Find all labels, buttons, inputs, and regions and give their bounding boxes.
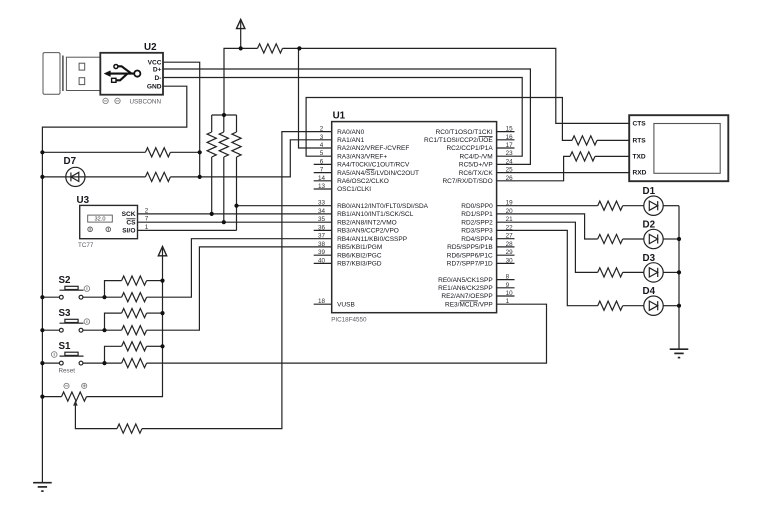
svg-text:S1: S1	[59, 341, 72, 352]
wire: resistor to LED D4	[623, 305, 644, 307]
wire: PIC pin2 RA0 to potentiometer wiper via resistor	[142, 132, 332, 429]
pot interactive symbols	[64, 383, 87, 388]
svg-text:32.0: 32.0	[95, 217, 106, 223]
wire: resistor to LED D2	[623, 238, 644, 240]
USB shell hole 1	[79, 63, 85, 70]
TC77 interactive symbols	[88, 227, 111, 232]
wire: S1 node upper branch to VCC rail	[105, 346, 122, 363]
PIC right pin function labels	[424, 129, 493, 309]
svg-text:RA0/AN0: RA0/AN0	[337, 129, 364, 136]
svg-text:4: 4	[320, 142, 324, 149]
wire: TC77 CS to PIC pin35 RB2	[138, 221, 332, 223]
svg-text:CTS: CTS	[633, 121, 647, 128]
potentiometer body	[62, 392, 87, 401]
wire: S3 node upper branch to VCC rail	[105, 313, 122, 330]
wire: TC77 SI/O riser to RB0 line	[138, 229, 237, 231]
svg-text:RB4/AN11/KBI0/CSSPP: RB4/AN11/KBI0/CSSPP	[337, 236, 407, 243]
svg-text:RB2/AN8/INT2/VMO: RB2/AN8/INT2/VMO	[337, 219, 397, 226]
svg-text:1: 1	[506, 298, 510, 305]
svg-text:U1: U1	[333, 110, 346, 121]
svg-text:D4: D4	[643, 286, 656, 297]
svg-text:RC4/D-/VM: RC4/D-/VM	[459, 153, 492, 160]
TC77 display	[88, 215, 113, 222]
diode D7	[66, 167, 85, 186]
resistor RP3 (pull-up SI/O)	[236, 115, 238, 132]
svg-text:SI/O: SI/O	[122, 228, 135, 235]
svg-text:VUSB: VUSB	[337, 301, 355, 308]
svg-text:24: 24	[506, 158, 514, 165]
PIC pin numbers right	[506, 126, 514, 306]
wire: PIC pin25 RC6/TX to RXD	[497, 172, 630, 174]
overline MCLR on RE3 label	[460, 300, 478, 302]
svg-text:1: 1	[145, 224, 149, 231]
serial module box	[629, 115, 728, 181]
wire: USB VCC to vertical rail x200	[163, 62, 200, 177]
resistor R-D3	[598, 268, 623, 277]
svg-text:Reset: Reset	[59, 368, 76, 375]
svg-text:3: 3	[320, 134, 324, 141]
svg-text:37: 37	[318, 233, 326, 240]
svg-text:D+: D+	[153, 66, 162, 73]
svg-text:35: 35	[318, 216, 326, 223]
svg-text:D3: D3	[643, 253, 656, 264]
wire: LED D4 to cathode rail	[663, 305, 679, 307]
USB plug shell	[66, 57, 100, 90]
wire: riser from VCC net down to PIC pin4 RA2	[299, 48, 332, 148]
USB shell hole 2	[79, 78, 85, 85]
svg-text:RE2/AN7/OESPP: RE2/AN7/OESPP	[441, 293, 492, 300]
TC77 U3 box	[80, 205, 138, 238]
PIC unconnected left pin stubs	[314, 164, 332, 304]
svg-text:7: 7	[145, 216, 149, 223]
resistor RP2 (pull-up CS)	[223, 115, 225, 132]
resistor R-D1	[598, 201, 623, 210]
wire: LED D1 to cathode rail	[663, 205, 679, 207]
svg-text:RA3/AN3/VREF+: RA3/AN3/VREF+	[337, 153, 387, 160]
wire: TC77 SCK to PIC pin34 RB1	[138, 213, 332, 215]
svg-text:RD5/SPP5/P1B: RD5/SPP5/P1B	[447, 244, 493, 251]
PIC pin numbers left	[318, 126, 326, 306]
resistor R-S2-pullup	[122, 276, 147, 285]
svg-text:RD4/SPP4: RD4/SPP4	[461, 236, 493, 243]
wire: resistor to LED D1	[623, 205, 644, 207]
svg-text:RB3/AN9/CCP2/VPO: RB3/AN9/CCP2/VPO	[337, 228, 399, 235]
svg-text:TXD: TXD	[633, 154, 646, 161]
svg-text:RA5/AN4/SS/LVDIN/C2OUT: RA5/AN4/SS/LVDIN/C2OUT	[337, 170, 419, 177]
svg-text:RB5/KBI1/PGM: RB5/KBI1/PGM	[337, 244, 382, 251]
PIC unconnected right pin stubs	[497, 132, 515, 296]
USB trident icon	[104, 65, 140, 83]
wiper arrowhead	[73, 400, 78, 405]
svg-text:RD1/SPP1: RD1/SPP1	[461, 211, 493, 218]
wire: PIC pin26 RC7/RX to TXD via resistor	[497, 156, 570, 180]
svg-text:USBCONN: USBCONN	[130, 99, 162, 106]
LED D3	[644, 263, 663, 282]
svg-text:RD3/SPP3: RD3/SPP3	[461, 228, 493, 235]
svg-text:23: 23	[506, 150, 514, 157]
svg-text:RC7/RX/DT/SDO: RC7/RX/DT/SDO	[442, 178, 492, 185]
resistor R-RTS	[572, 136, 597, 145]
wire: VCC top net with series resistor to CTS, riser to pull-up bus and pin4	[224, 48, 258, 115]
resistor R-S2-series	[122, 293, 147, 302]
svg-text:TC77: TC77	[78, 242, 94, 249]
resistor R-D7	[145, 172, 170, 181]
switch S1	[42, 352, 104, 365]
svg-text:U2: U2	[144, 42, 157, 53]
wire: S1 row resistor to PIC pin1 MCLR	[105, 362, 122, 364]
svg-text:RB6/KBI2/PGC: RB6/KBI2/PGC	[337, 252, 382, 259]
wire: rail to VCC-rail with resistor (y152)	[42, 151, 145, 153]
svg-text:RC2/CCP1/P1A: RC2/CCP1/P1A	[446, 145, 493, 152]
svg-text:RD6/SPP6/P1C: RD6/SPP6/P1C	[447, 252, 493, 259]
svg-text:34: 34	[318, 208, 326, 215]
svg-text:OSC1/CLKI: OSC1/CLKI	[337, 186, 371, 193]
USB interactive symbols	[103, 98, 120, 103]
svg-text:RD2/SPP2: RD2/SPP2	[461, 219, 493, 226]
resistor R-S3-pullup	[122, 309, 147, 318]
wire: USB D- to PIC pin23 RC4	[163, 78, 522, 157]
svg-text:RE3/MCLR/VPP: RE3/MCLR/VPP	[445, 301, 493, 308]
wire: USB GND wrap-around + left ground rail	[42, 86, 186, 483]
switch S3	[42, 319, 104, 332]
wire: PIC RD3 to D4 resistor	[497, 230, 598, 305]
resistor R-S3-series	[122, 326, 147, 335]
svg-text:U3: U3	[77, 195, 90, 206]
wire: PIC RD1 to D2 resistor	[497, 214, 598, 239]
svg-text:PIC18F4550: PIC18F4550	[331, 317, 367, 324]
resistor R-pullup (rail-VCC y152)	[145, 148, 170, 157]
wire: RB0 line to PIC pin33	[237, 205, 332, 207]
ground (left rail)	[33, 483, 52, 491]
switch S2	[42, 286, 104, 299]
power arrow VCC top	[237, 19, 245, 48]
resistor R-S1-series	[122, 359, 147, 368]
svg-text:RA4/T0CKI/C1OUT/RCV: RA4/T0CKI/C1OUT/RCV	[337, 162, 410, 169]
wire: RA3 pin5 to RTS via resistor	[306, 98, 572, 157]
USB plug neck	[62, 56, 64, 92]
wire: S2 node upper branch to VCC rail	[105, 281, 122, 298]
wire: S2 row resistor to PIC pin37 RB4	[105, 296, 122, 298]
svg-text:RE1/AN6/CK2SPP: RE1/AN6/CK2SPP	[438, 285, 493, 292]
resistor R-wiper	[117, 424, 142, 433]
svg-text:D-: D-	[155, 75, 162, 82]
svg-text:D7: D7	[64, 156, 77, 167]
resistor R-D2	[598, 234, 623, 243]
svg-text:RB1/AN10/INT1/SCK/SCL: RB1/AN10/INT1/SCK/SCL	[337, 211, 414, 218]
svg-text:RD0/SPP0: RD0/SPP0	[461, 203, 493, 210]
wire: LED D2 to cathode rail	[663, 238, 679, 240]
PIC18F4550 U1 box	[332, 122, 497, 313]
serial module inner screen	[654, 124, 720, 174]
svg-text:38: 38	[318, 241, 326, 248]
overline UOE on RC1 label	[479, 136, 493, 138]
svg-text:S3: S3	[59, 308, 72, 319]
wire: PIC RD2 to D3 resistor	[497, 222, 598, 272]
svg-text:RB7/KBI3/PGD: RB7/KBI3/PGD	[337, 261, 382, 268]
power arrow VCC rail	[158, 247, 166, 281]
wire: pull-up top bus	[212, 114, 237, 116]
wire: USB D+ to PIC pin24 RC5	[163, 69, 530, 164]
svg-text:RE0/AN5/CK1SPP: RE0/AN5/CK1SPP	[438, 277, 493, 284]
LED D4	[644, 296, 663, 315]
wire: S3 row resistor to PIC pin38 RB5	[105, 329, 122, 331]
svg-text:GND: GND	[147, 84, 162, 91]
wire: resistor to LED D3	[623, 271, 644, 273]
USB connector U2 plug cap	[43, 53, 60, 95]
svg-text:RD7/SPP7/P1D: RD7/SPP7/P1D	[447, 261, 493, 268]
svg-text:RA1/AN1: RA1/AN1	[337, 137, 364, 144]
svg-text:RB0/AN12/INT0/FLT0/SDI/SDA: RB0/AN12/INT0/FLT0/SDI/SDA	[337, 203, 429, 210]
wire: LED D3 to cathode rail	[663, 271, 679, 273]
resistor R-S1-pullup	[122, 342, 147, 351]
wire: D7 row from ground rail to PIC pin3 RA1	[42, 176, 145, 178]
svg-text:S2: S2	[59, 275, 72, 286]
svg-text:RA2/AN2/VREF-/CVREF: RA2/AN2/VREF-/CVREF	[337, 145, 409, 152]
LED D1	[644, 196, 663, 215]
svg-text:RC6/TX/CK: RC6/TX/CK	[459, 170, 494, 177]
resistor R-VCC-CTS	[258, 44, 283, 53]
svg-text:33: 33	[318, 200, 326, 207]
svg-text:2: 2	[320, 126, 324, 133]
resistor R-D4	[598, 301, 623, 310]
USB body box	[100, 53, 163, 95]
LED D2	[644, 229, 663, 248]
overline SS on RA5 label	[366, 168, 375, 170]
svg-text:RC5/D+/VP: RC5/D+/VP	[459, 162, 493, 169]
svg-text:RC1/T1OSI/CCP2/UOE: RC1/T1OSI/CCP2/UOE	[424, 137, 493, 144]
wire: LED cathode rail to ground	[678, 206, 680, 350]
PIC left pin function labels	[337, 129, 429, 309]
resistor R-TXD	[570, 152, 595, 161]
svg-text:RC0/T1OSO/T1CKI: RC0/T1OSO/T1CKI	[436, 129, 493, 136]
svg-text:D1: D1	[643, 186, 656, 197]
ground (LED rail)	[670, 349, 689, 357]
resistor RP1 (pull-up SCK)	[211, 115, 213, 132]
svg-text:RA6/OSC2/CLKO: RA6/OSC2/CLKO	[337, 178, 389, 185]
svg-text:CS: CS	[126, 219, 136, 226]
svg-text:RTS: RTS	[633, 138, 647, 145]
wire: PIC pin19 RD0 to D1 resistor	[497, 205, 598, 207]
svg-text:SCK: SCK	[122, 211, 136, 218]
svg-text:D2: D2	[643, 220, 656, 231]
svg-text:2: 2	[145, 207, 149, 214]
svg-text:RXD: RXD	[633, 169, 647, 176]
wire: VCC switch rail down to potentiometer	[87, 281, 163, 397]
